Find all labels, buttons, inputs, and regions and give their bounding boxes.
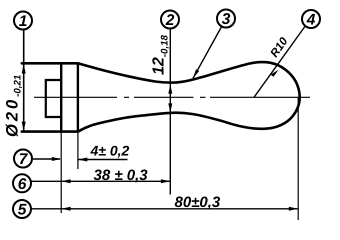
dimension line 12-0.18 with extension below bbox=[169, 29, 171, 195]
svg-text:6: 6 bbox=[18, 176, 27, 193]
label R10 bbox=[269, 35, 291, 60]
dimension 80+-0.3 bbox=[31, 208, 298, 210]
label 38+-0.3 bbox=[94, 167, 149, 184]
svg-text:2: 2 bbox=[165, 12, 175, 29]
balloon 1 bbox=[14, 12, 32, 31]
flange edge left bbox=[60, 63, 62, 131]
svg-text:3: 3 bbox=[222, 11, 231, 28]
label 12-0.18 bbox=[151, 35, 171, 75]
dimension line dia20 (also left face) bbox=[23, 30, 25, 132]
balloon 3 leader bbox=[193, 26, 222, 78]
radius R10 leader bbox=[254, 27, 305, 98]
balloon 5 bbox=[13, 200, 31, 219]
svg-text:1: 1 bbox=[19, 13, 28, 30]
balloon 2 bbox=[161, 11, 179, 30]
svg-text:4: 4 bbox=[306, 12, 316, 29]
recess rectangle bbox=[46, 80, 61, 117]
label 4+-0.2 bbox=[90, 143, 130, 159]
extension line x78 bbox=[77, 132, 79, 169]
balloon 4 bbox=[302, 10, 320, 29]
svg-text:5: 5 bbox=[18, 202, 27, 219]
label 80+-0.3 bbox=[175, 194, 221, 211]
centerline bbox=[34, 96, 310, 98]
svg-text:4± 0,2: 4± 0,2 bbox=[90, 143, 130, 159]
flange edge right bbox=[77, 63, 79, 131]
label dia20-0.21 bbox=[4, 75, 24, 137]
svg-text:7: 7 bbox=[19, 151, 29, 168]
balloon 7 leader bbox=[32, 158, 60, 160]
balloon 3 bbox=[217, 10, 235, 29]
extension line x298 bbox=[297, 97, 299, 220]
extension line x61 bbox=[60, 132, 62, 213]
part outline bbox=[22, 62, 300, 132]
svg-text:80±0,3: 80±0,3 bbox=[175, 194, 221, 211]
balloon 6 bbox=[13, 174, 31, 193]
dimension 38+-0.3 bbox=[31, 180, 170, 182]
dimension 4+-0.2 tail bbox=[78, 159, 128, 161]
svg-text:38 ± 0,3: 38 ± 0,3 bbox=[94, 167, 149, 184]
balloon 7 bbox=[14, 150, 32, 169]
